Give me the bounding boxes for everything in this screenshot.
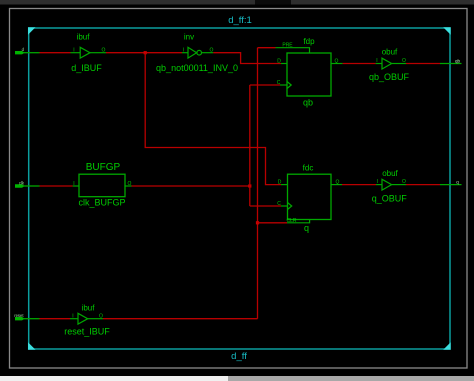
svg-text:obuf: obuf bbox=[382, 169, 398, 178]
node junction clk branch bbox=[248, 184, 251, 187]
svg-text:I: I bbox=[183, 47, 184, 53]
ibuf d_IBUF bbox=[71, 33, 107, 74]
wire clk to fdc C bbox=[250, 205, 281, 207]
svg-text:I: I bbox=[376, 58, 377, 64]
sheet corner top-right bbox=[443, 27, 451, 35]
wire qb_OBUF out bbox=[406, 63, 440, 65]
input port clk bbox=[15, 181, 40, 188]
svg-text:O: O bbox=[210, 47, 214, 53]
wire reset to fdp PRE bbox=[258, 47, 276, 49]
svg-text:qb: qb bbox=[455, 58, 461, 63]
svg-text:D: D bbox=[277, 58, 281, 64]
svg-text:qb: qb bbox=[303, 98, 313, 108]
obuf q_OBUF bbox=[372, 169, 408, 204]
svg-text:d_ff: d_ff bbox=[231, 351, 247, 362]
svg-text:O: O bbox=[128, 181, 132, 187]
top window bar bbox=[0, 0, 474, 5]
svg-text:I: I bbox=[72, 313, 73, 319]
svg-text:q: q bbox=[304, 223, 309, 233]
wire clk net bbox=[40, 185, 73, 187]
svg-text:ibuf: ibuf bbox=[82, 304, 96, 313]
sheet corner bottom-left bbox=[28, 342, 36, 350]
svg-text:PRE: PRE bbox=[282, 42, 293, 48]
svg-text:qb_OBUF: qb_OBUF bbox=[369, 72, 410, 82]
sheet border bbox=[29, 28, 450, 349]
wire fdp Q to obuf bbox=[343, 63, 376, 65]
wire d net bbox=[40, 52, 71, 54]
wire clk vertical bbox=[249, 85, 251, 206]
wire q_OBUF out bbox=[406, 184, 440, 186]
wire reset net horizontal bbox=[103, 318, 258, 320]
flip-flop fdc q bbox=[277, 164, 342, 234]
svg-text:obuf: obuf bbox=[382, 48, 398, 57]
wire fdc Q to obuf bbox=[342, 184, 376, 186]
svg-text:fdp: fdp bbox=[303, 37, 315, 46]
svg-text:ibuf: ibuf bbox=[77, 33, 91, 42]
svg-text:reset_IBUF: reset_IBUF bbox=[64, 327, 110, 337]
svg-text:O: O bbox=[102, 47, 106, 53]
svg-text:I: I bbox=[377, 179, 378, 185]
svg-text:d_IBUF: d_IBUF bbox=[71, 63, 102, 73]
svg-text:clk: clk bbox=[19, 181, 25, 186]
ibuf reset_IBUF bbox=[64, 304, 110, 337]
svg-text:Q: Q bbox=[336, 179, 340, 185]
wire rst net bbox=[40, 318, 71, 320]
wire inv out to fdp D bbox=[213, 53, 281, 64]
svg-text:O: O bbox=[402, 179, 406, 185]
svg-text:d_ff:1: d_ff:1 bbox=[228, 15, 252, 26]
output port q bbox=[440, 179, 462, 184]
wire reset vertical bbox=[257, 48, 259, 319]
svg-text:O: O bbox=[99, 313, 103, 319]
svg-text:D: D bbox=[278, 179, 282, 185]
svg-text:Q: Q bbox=[335, 58, 339, 64]
wire reset to fdc CLR bbox=[258, 222, 288, 224]
wire clk_BUFGP out bbox=[132, 185, 250, 187]
svg-text:BUFGP: BUFGP bbox=[86, 162, 121, 173]
output port qb bbox=[440, 58, 462, 63]
sheet corner bottom-right bbox=[443, 342, 451, 350]
svg-text:I: I bbox=[73, 47, 74, 53]
svg-text:inv: inv bbox=[184, 33, 194, 42]
buffer BUFGP clk_BUFGP bbox=[73, 162, 132, 208]
node junction reset to CLR bbox=[256, 221, 259, 224]
svg-text:q_OBUF: q_OBUF bbox=[372, 194, 408, 204]
inv qb_not00011_INV_0 bbox=[156, 33, 238, 74]
svg-text:qb_not00011_INV_0: qb_not00011_INV_0 bbox=[156, 63, 238, 73]
wire clk to fdp C bbox=[250, 84, 280, 86]
sheet corner top-left bbox=[28, 27, 36, 35]
input port rst bbox=[14, 313, 39, 320]
wire d_IBUF out bbox=[106, 52, 182, 54]
svg-text:CLR: CLR bbox=[286, 218, 296, 224]
svg-text:O: O bbox=[402, 58, 406, 64]
svg-text:fdc: fdc bbox=[303, 164, 314, 173]
svg-text:clk_BUFGP: clk_BUFGP bbox=[78, 198, 125, 208]
bottom scrollbar bbox=[0, 376, 228, 381]
svg-text:reset: reset bbox=[14, 313, 24, 318]
wire d branch down bbox=[145, 53, 281, 185]
flip-flop fdp qb bbox=[276, 37, 343, 108]
node junction d branch bbox=[144, 51, 147, 54]
svg-text:C: C bbox=[277, 201, 281, 207]
input port d bbox=[15, 47, 40, 54]
obuf qb_OBUF bbox=[369, 48, 410, 83]
svg-text:I: I bbox=[73, 181, 74, 187]
